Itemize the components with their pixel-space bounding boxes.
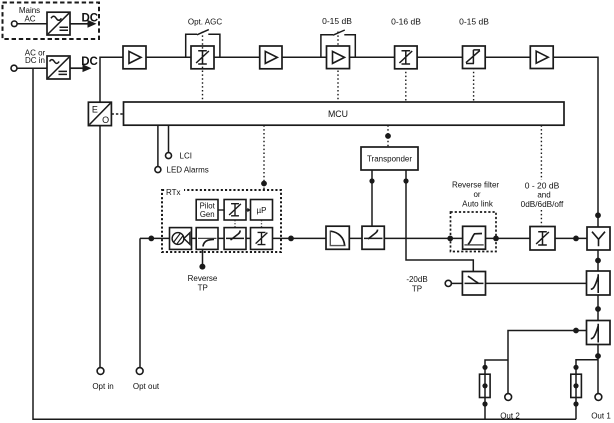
slope adjust reverse: [362, 226, 384, 249]
svg-text:Reverse filter: Reverse filter: [452, 181, 499, 190]
svg-text:0dB/6dB/off: 0dB/6dB/off: [521, 200, 564, 209]
wire pilot gen to att: [218, 209, 224, 211]
svg-text:Gen: Gen: [200, 210, 215, 219]
AC/DC converter U2: [47, 56, 70, 79]
svg-text:Out 2: Out 2: [500, 412, 520, 421]
wire Opt out drop: [139, 238, 141, 367]
dotted link uP to att2: [261, 220, 263, 228]
wire diplexer2 to Out2: [508, 331, 587, 394]
svg-text:LCI: LCI: [180, 151, 192, 160]
variable attenuator RTx pilot: [224, 200, 246, 221]
bypass loop amp3: [321, 35, 333, 58]
svg-text:Out 1: Out 1: [591, 412, 611, 421]
fuse F2 wire: [576, 360, 598, 419]
pilot generator: [196, 200, 218, 221]
dotted control MCU to 0-20dB att: [540, 125, 542, 180]
node reverse line junction: [288, 236, 294, 242]
diplex filter 2: [587, 321, 611, 345]
svg-text:Opt in: Opt in: [92, 382, 113, 391]
node reverse filter left: [447, 236, 453, 242]
wire DC output arrow: [70, 67, 84, 69]
terminal Out 1: [595, 394, 602, 401]
wire transponder fwd tap: [371, 170, 373, 226]
variable attenuator Opt. AGC: [191, 32, 214, 103]
bypass loop AGC: [186, 34, 197, 57]
terminal mains AC input: [12, 21, 18, 27]
svg-text:-20dB: -20dB: [406, 275, 427, 284]
svg-text:DC: DC: [81, 56, 98, 68]
svg-text:µP: µP: [257, 206, 267, 215]
MCU U3: [124, 102, 565, 125]
directional coupler -20dB: [462, 272, 485, 296]
node transponder ctrl: [385, 133, 391, 139]
wire MCU to LCI: [168, 125, 170, 152]
wire mains AC to converter: [17, 23, 47, 25]
node out2 line: [573, 328, 579, 334]
amplifier A2: [260, 46, 282, 69]
svg-text:0 - 20 dB: 0 - 20 dB: [525, 180, 560, 190]
RTx dotted enclosure: [162, 186, 281, 253]
reverse filter dashed enclosure: [451, 212, 497, 252]
svg-text:0-16 dB: 0-16 dB: [391, 16, 421, 26]
variable attenuator 0-20dB: [530, 227, 555, 251]
dotted control amp3 switch: [337, 32, 339, 103]
svg-text:0-15 dB: 0-15 dB: [459, 16, 489, 26]
terminal Out 2: [505, 394, 512, 401]
slope adjust RTx: [196, 228, 218, 250]
amplifier A4: [530, 46, 553, 69]
wire E/O to Opt in: [99, 126, 101, 368]
dotted control MCU to transponder: [387, 125, 389, 147]
svg-text:Reverse: Reverse: [188, 274, 218, 283]
wire diplexer2 to Out1: [597, 345, 599, 394]
wire AC/DC in to converter: [17, 67, 47, 69]
terminal AC or DC input: [11, 65, 17, 71]
svg-text:TP: TP: [198, 283, 208, 292]
wire reverse TP drop: [202, 249, 204, 264]
dotted link att to switch: [234, 220, 236, 228]
dotted control MCU to RTx uP: [263, 125, 265, 199]
switch slope RTx: [224, 228, 246, 250]
svg-text:Opt. AGC: Opt. AGC: [188, 17, 222, 26]
svg-text:TP: TP: [412, 285, 422, 294]
svg-text:Pilot: Pilot: [200, 201, 216, 210]
wire splitter to diplexer1: [597, 250, 599, 271]
wire TP to coupler: [451, 282, 462, 284]
amplifier A3 switched 0-15dB: [327, 46, 350, 69]
svg-text:Transponder: Transponder: [367, 155, 412, 164]
terminal -20dB TP: [445, 280, 451, 286]
wire att to uP arrow: [246, 209, 249, 211]
microprocessor uP: [251, 200, 273, 221]
svg-text:and: and: [537, 191, 550, 200]
terminal LED Alarms: [155, 167, 161, 173]
node between diplexers: [595, 306, 601, 312]
diplex filter 1: [587, 271, 611, 295]
fuse F2: [571, 365, 582, 407]
variable equalizer 0-15dB: [463, 46, 486, 69]
node opt out junction: [148, 236, 154, 242]
dotted control eq 0-15dB: [473, 60, 475, 102]
node RTx ctrl: [261, 181, 267, 187]
svg-text:RTx: RTx: [166, 188, 181, 197]
wire transponder to coupler: [406, 170, 473, 272]
svg-text:O: O: [102, 115, 109, 125]
svg-text:0-15 dB: 0-15 dB: [322, 16, 352, 26]
wire RF main line top: [100, 57, 598, 227]
node rev tap: [403, 178, 408, 183]
fuse F1: [480, 365, 491, 407]
wire reverse line: [140, 237, 587, 239]
wire MCU to LED alarms: [157, 125, 159, 166]
terminal LCI: [166, 153, 172, 159]
splitter Y: [587, 227, 610, 250]
wire reverse line inside RTx: [162, 237, 281, 239]
wire power bus left drop: [33, 68, 576, 419]
dotted control att 0-16dB: [405, 60, 407, 102]
node splitter left: [573, 236, 579, 242]
svg-text:Mains: Mains: [19, 6, 40, 15]
node out1 branch: [595, 353, 601, 359]
node reverse filter right: [493, 236, 499, 242]
svg-text:E: E: [92, 104, 98, 114]
svg-text:MCU: MCU: [328, 109, 348, 119]
variable attenuator RTx output: [251, 228, 273, 250]
optional mains PSU dashed enclosure: [3, 3, 100, 40]
low pass filter reverse: [326, 226, 349, 249]
optical receiver E/O: [88, 102, 111, 125]
transponder U4: [361, 147, 418, 170]
svg-text:AC: AC: [24, 15, 35, 24]
high pass filter reverse: [463, 226, 486, 249]
node reverse TP: [199, 264, 205, 270]
node fwd tap: [369, 178, 374, 183]
wire coupler to diplexer1: [486, 282, 587, 284]
svg-text:or: or: [473, 190, 480, 199]
terminal Opt in: [97, 368, 104, 375]
dashed link E/O to MCU: [112, 113, 124, 115]
node below splitter: [595, 258, 601, 264]
variable attenuator 0-16dB: [395, 46, 418, 69]
svg-text:LED Alarms: LED Alarms: [167, 165, 209, 174]
optical transmitter laser: [170, 228, 192, 250]
wire DC output arrow (mains): [70, 23, 89, 25]
svg-text:Opt out: Opt out: [133, 382, 160, 391]
fuse F1 wire: [485, 360, 508, 419]
svg-text:Auto link: Auto link: [462, 199, 494, 208]
amplifier A1: [123, 46, 146, 69]
AC/DC converter U1 (mains): [47, 12, 70, 35]
wire diplexer1 to diplexer2: [597, 295, 599, 321]
node above splitter: [595, 212, 601, 218]
svg-text:DC in: DC in: [25, 56, 45, 65]
svg-text:DC: DC: [81, 13, 98, 25]
terminal Opt out: [136, 368, 143, 375]
